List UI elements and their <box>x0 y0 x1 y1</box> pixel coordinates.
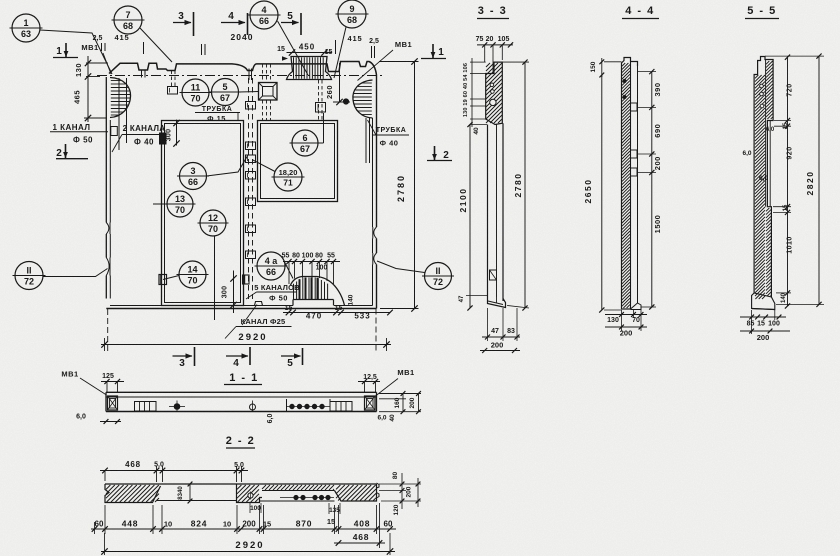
section 1-1 middle circle <box>250 404 256 410</box>
dim 300 bottom in opening O1 <box>233 271 235 314</box>
section mark 1 top-left <box>65 43 67 58</box>
anchor plate above opening O2 <box>316 103 326 113</box>
channel exit platform on bottom edge <box>293 299 334 301</box>
anchor loop MV1 left semicircle <box>110 78 131 118</box>
section 4-4 dim 2650 left <box>601 75 603 310</box>
callout circle 7/68 <box>114 6 142 34</box>
callout circle 3/66 <box>180 163 207 190</box>
section 2-2 bottom dim row <box>91 528 396 530</box>
section mark 5 bottom <box>281 355 301 357</box>
callout circle 4/66 <box>250 1 278 29</box>
section 5-5 dim 2820 <box>818 56 820 304</box>
leader of callout 14/70 <box>163 276 179 280</box>
dashed leads below pyramid socket <box>262 100 264 120</box>
leader of callout 18,20/71 <box>253 160 275 172</box>
section 1-1 channel box left <box>135 402 157 412</box>
leader of callout 12/70 <box>214 236 216 320</box>
section 2-2 middle block <box>237 484 263 503</box>
leader of callout II/72 left <box>43 269 108 277</box>
leader of callout 3/66 <box>207 155 249 176</box>
callout circle 9/68 <box>338 0 366 28</box>
section 3-3 top dim 75/20/105 <box>477 44 513 46</box>
section 2-2 middle web lines <box>157 500 237 502</box>
section 1-1 panel strip <box>106 391 377 393</box>
lifting notch right upper <box>371 227 378 239</box>
tube lines below right semicircle <box>365 118 367 163</box>
section mark 4 top <box>221 22 245 24</box>
panel bottom edge <box>106 308 376 310</box>
callout circle 11/70 <box>182 79 209 106</box>
section 1-1 anchor MV1 right <box>365 396 376 410</box>
dim row 15-470-15-533 below panel <box>283 312 390 314</box>
channel anchor plates on vertical channel <box>246 102 256 110</box>
callout circle 1/63 <box>12 14 40 42</box>
embedded conduit block 450 at top <box>287 57 332 80</box>
anchor plate on opening O1 left edge lower <box>159 275 167 285</box>
leader of callout 1/63 <box>40 30 112 74</box>
pyramid socket anchor <box>259 83 278 101</box>
section 1-1 right dims 160/200 <box>379 393 421 395</box>
dim 130/465 left side <box>87 56 89 122</box>
vertical channel dashed pair <box>248 78 250 299</box>
section 4-4 dots <box>623 79 626 82</box>
section 5-5 bottom dims <box>740 316 786 318</box>
callout circle 14/70 <box>179 261 206 288</box>
section 3-3 strip body <box>487 125 489 296</box>
panel main plan outline top edge <box>109 62 377 76</box>
section 4-4 bottom dims <box>605 314 647 316</box>
leader of callout 9/68 <box>334 27 346 78</box>
section 3-3 dim 2780 <box>524 62 526 308</box>
callout circle 6/67 <box>292 130 318 156</box>
scan noise overlay <box>0 0 1 1</box>
leader of callout 5/67 <box>239 91 259 94</box>
section 3-3 foot <box>488 296 506 308</box>
section mark 5 top <box>281 22 299 24</box>
dim 300 upper-left in opening O1 <box>176 120 178 146</box>
lifting notch right lower <box>371 253 378 265</box>
section 2-2 channel circle f25 <box>248 493 253 498</box>
section 5-5 strip <box>754 57 773 298</box>
ticks inside top notch 1 <box>141 70 143 78</box>
lifting notch left lower <box>105 258 112 276</box>
fan of 5 channels bottom right <box>291 277 345 306</box>
section mark 2 left <box>65 144 67 159</box>
leader MV1 top-right <box>358 50 394 81</box>
anchor dot right of opening O2 <box>343 99 348 104</box>
section mark 4 bottom <box>226 355 248 357</box>
section 2-2 right block <box>335 484 377 501</box>
section 1-1 dim 12,5 right <box>364 382 366 393</box>
anchor plate on opening O1 right edge lower <box>243 275 250 284</box>
section 3-3 bottom dim 200 <box>480 350 520 352</box>
dashed leads above pyramid socket <box>262 64 264 83</box>
section mark 3 top <box>173 22 191 24</box>
lifting notch left upper <box>105 223 112 235</box>
section 1-1 tube circle <box>174 404 180 410</box>
section 2-2 top dim 468/50/50 <box>100 470 248 472</box>
leader of callout 4/66 <box>278 21 309 75</box>
dim 2780 right side <box>414 62 416 309</box>
section 5-5 dots <box>760 84 764 88</box>
section 2-2 left block <box>105 484 161 503</box>
section 2-2 outer top line <box>105 483 377 485</box>
section 3-3 dim 2100 <box>469 125 471 309</box>
section 2-2 band right of middle block <box>262 490 335 492</box>
section 4-4 right dim chain <box>651 72 653 307</box>
section 3-3 head block <box>486 62 503 124</box>
leader of callout 13/70 <box>153 203 167 205</box>
dashed leads below top notch 1 <box>171 71 173 87</box>
leader of callout 4a/66 <box>285 262 294 279</box>
section 4-4 strip <box>622 58 638 310</box>
section 2-2 right edge nubs <box>377 483 380 488</box>
section 2-2 dots row <box>280 497 334 499</box>
callout circle II/72 left <box>15 262 43 290</box>
callout circle 5/67 <box>212 79 239 106</box>
section mark 2 right <box>434 146 436 161</box>
section 1-1 dim 125 left <box>106 382 108 393</box>
callout circle II/72 right <box>425 263 452 290</box>
tick pair right of section mark 3 <box>201 44 203 55</box>
dim 260 right of conduit <box>339 63 341 102</box>
channel opening on left edge <box>111 127 118 136</box>
panel axis dash-dot line <box>97 75 384 77</box>
section 5-5 right dim chain <box>787 57 789 306</box>
section 4-4 anchor tabs <box>631 103 638 111</box>
panel left edge <box>105 77 107 299</box>
section 3-3 strip anchor <box>490 270 497 280</box>
section mark 3 bottom <box>173 355 193 357</box>
dashed leads from conduit to opening O2 <box>318 80 320 120</box>
section 1-1 five channel dots <box>286 399 288 412</box>
callout circle 13/70 <box>167 191 193 217</box>
panel right edge <box>376 75 378 309</box>
section mark 1 top-right <box>432 44 434 59</box>
anchor channel lines below left semicircle <box>118 78 120 150</box>
anchor plate on opening O1 left edge upper <box>160 133 167 144</box>
opening O2 right rectangle <box>258 121 338 202</box>
section 3-3 bottom dims 47/83 <box>482 336 520 338</box>
leader of callout 7/68 <box>140 28 172 62</box>
section 5-5 foot <box>752 293 775 310</box>
leader of callout II/72 right <box>377 261 425 273</box>
leader of callout 11/70 <box>180 92 183 94</box>
small channel exit step <box>255 302 263 306</box>
anchor plate left of circle 11 <box>168 87 178 95</box>
callout circle 12/70 <box>200 210 226 236</box>
channel riser exit lines <box>248 69 250 81</box>
callout circle 18,20/71 <box>274 163 302 191</box>
callout circle 4a/66 <box>257 252 285 280</box>
section 3-3 head holes <box>490 83 494 87</box>
leader MV1 top-left <box>103 53 111 74</box>
anchor loop MV1 right semicircle <box>353 80 373 118</box>
section 1-1 channel box right <box>330 402 352 412</box>
section 2-2 right dims 80/200/120 <box>379 483 421 485</box>
leader of callout 6/67 <box>318 142 324 144</box>
section 2-2 dim 468 right <box>334 542 385 544</box>
opening O1 left rectangle <box>162 121 244 306</box>
section 1-1 anchor MV1 left <box>108 396 118 410</box>
